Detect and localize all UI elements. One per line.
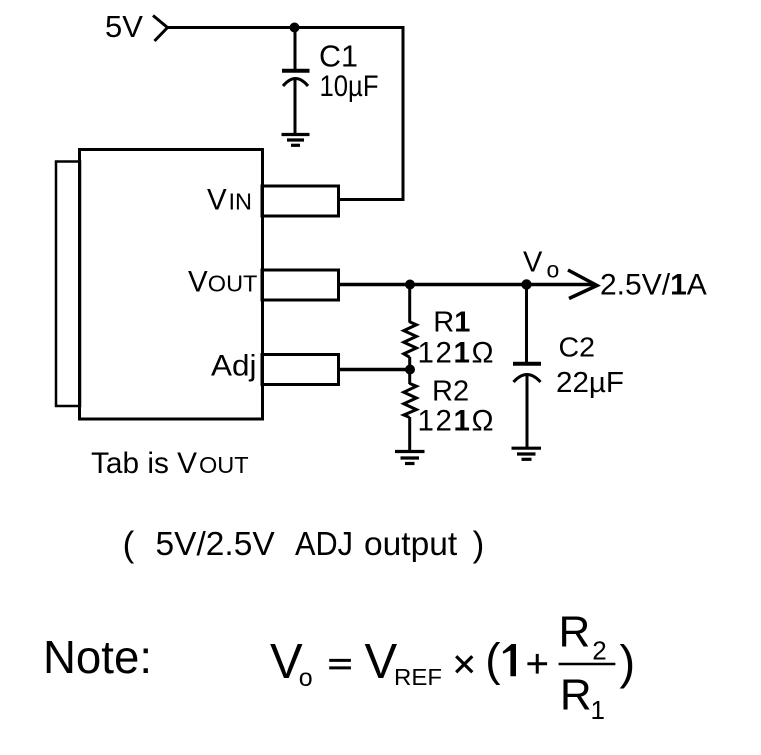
svg-text:R2: R2 — [432, 376, 469, 408]
wire top rail from 5V to corner — [166, 26, 403, 29]
node junction dot at 5V/C1 — [290, 23, 300, 33]
pin VIN lead rectangle — [262, 186, 339, 216]
svg-text:R: R — [559, 608, 591, 657]
equals sign — [329, 659, 351, 662]
pin VOUT lead rectangle — [262, 270, 339, 300]
svg-text:OUT: OUT — [208, 271, 258, 297]
svg-text:121Ω: 121Ω — [418, 337, 494, 370]
5V input connector chevron — [153, 16, 168, 42]
capacitor C2 top plate — [513, 362, 541, 366]
resistor R2 zigzag — [404, 383, 417, 417]
output arrow head — [568, 270, 597, 299]
svg-text:V: V — [188, 266, 208, 299]
ground below C1 — [282, 135, 310, 146]
svg-text:Adj: Adj — [211, 350, 257, 383]
svg-text:121Ω: 121Ω — [418, 405, 494, 438]
capacitor C1 top plate — [282, 69, 310, 73]
svg-text:1: 1 — [591, 695, 605, 725]
svg-text:5V/2.5V: 5V/2.5V — [156, 526, 276, 563]
svg-text:2: 2 — [592, 636, 606, 666]
capacitor C2 curved plate — [514, 375, 541, 383]
wire VOUT output rail — [339, 283, 596, 287]
svg-text:IN: IN — [229, 189, 253, 215]
node junction dot VOUT/C2 — [521, 279, 531, 289]
node junction dot VOUT/R1 — [405, 280, 415, 290]
regulator U1 mounting tab — [56, 162, 80, 407]
svg-text:o: o — [299, 664, 313, 692]
node junction dot Adj/R1/R2 — [405, 365, 415, 375]
wire C2 top lead — [525, 285, 528, 363]
wire R2 top lead — [408, 370, 411, 385]
svg-text:ADJ: ADJ — [295, 526, 353, 563]
svg-text:o: o — [547, 257, 560, 283]
wire R1 bottom lead — [408, 357, 411, 370]
svg-text:): ) — [473, 525, 485, 564]
svg-text:C2: C2 — [559, 332, 596, 363]
multiplication sign drawn — [456, 656, 472, 672]
fraction bar — [559, 663, 616, 666]
wire R2 bottom lead — [408, 417, 411, 451]
pin Adj lead rectangle — [262, 355, 339, 385]
svg-text:10µF: 10µF — [320, 70, 379, 103]
ground below C2 — [512, 448, 542, 459]
svg-text:): ) — [619, 636, 635, 689]
svg-text:Note:: Note: — [43, 631, 152, 683]
svg-text:C1: C1 — [319, 39, 358, 73]
plus sign drawn — [527, 662, 547, 665]
resistor R1 zigzag — [404, 322, 417, 357]
svg-text:22µF: 22µF — [556, 367, 624, 399]
wire C1 bottom lead — [294, 79, 297, 133]
svg-text:V: V — [365, 635, 398, 689]
svg-text:5V: 5V — [105, 9, 143, 44]
svg-text:(: ( — [485, 634, 501, 686]
regulator U1 body — [80, 150, 263, 420]
caption 5V/2.5V ADJ output — [123, 525, 485, 564]
wire R1 top lead — [408, 285, 411, 323]
wire C1 top lead — [294, 28, 297, 71]
wire Adj pin to divider — [339, 368, 410, 372]
digit 1 in formula — [503, 644, 516, 676]
svg-text:output: output — [364, 526, 458, 563]
svg-text:OUT: OUT — [199, 452, 249, 478]
svg-text:V: V — [523, 247, 543, 279]
svg-text:(: ( — [123, 525, 135, 564]
svg-text:R: R — [560, 670, 592, 719]
svg-text:REF: REF — [394, 664, 442, 690]
wire C2 bottom lead — [526, 375, 529, 447]
ground below R2 — [395, 452, 425, 464]
wire right rail down to VIN — [402, 26, 405, 200]
svg-text:R1: R1 — [433, 306, 470, 338]
svg-text:V: V — [207, 183, 227, 216]
formula Vo = VREF x (1 + R2/R1) — [270, 608, 635, 725]
capacitor C1 curved plate — [283, 79, 308, 87]
wire VIN pin to right rail — [339, 198, 405, 201]
svg-text:Tab is V: Tab is V — [91, 447, 197, 480]
svg-text:2.5V/1A: 2.5V/1A — [600, 269, 707, 302]
